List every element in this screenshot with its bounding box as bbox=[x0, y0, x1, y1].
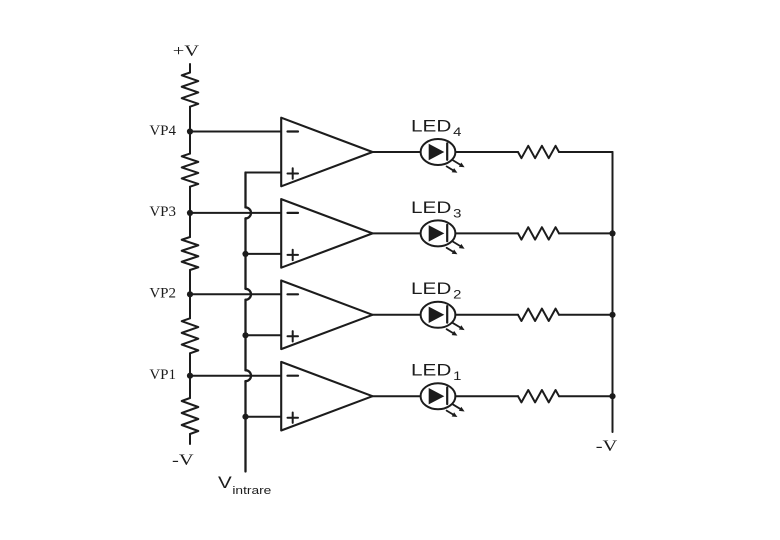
wire LED2 to resistor bbox=[455, 314, 518, 316]
junction input bus row 4 bbox=[242, 414, 248, 420]
LED D1 diode triangle bbox=[429, 388, 445, 404]
svg-text:+V: +V bbox=[173, 42, 200, 59]
wire U2 output to LED2 bbox=[373, 314, 421, 316]
LED D1 cathode bar bbox=[446, 388, 448, 405]
svg-text:VP1: VP1 bbox=[149, 367, 176, 383]
svg-text:-V: -V bbox=[596, 437, 618, 454]
U1 minus sign bbox=[288, 375, 299, 377]
wire hop over VP3 line bbox=[246, 207, 252, 218]
LED D4 circle bbox=[421, 139, 456, 165]
wire R5 to -V bbox=[189, 434, 191, 444]
resistor output row 2 bbox=[518, 309, 559, 321]
resistor R1 bbox=[182, 73, 199, 107]
node VP4 bbox=[187, 128, 193, 134]
wire U1 output to LED1 bbox=[373, 395, 421, 397]
U4 plus sign bbox=[288, 168, 299, 178]
wire LED1 to resistor bbox=[455, 395, 518, 397]
U2 minus sign bbox=[288, 293, 299, 295]
wire +V to R1 bbox=[189, 64, 191, 73]
wire R4 to node VP1 bbox=[189, 353, 191, 375]
junction input bus row 2 bbox=[242, 251, 248, 257]
wire hop over VP1 line bbox=[246, 370, 252, 381]
node VP3 bbox=[187, 210, 193, 216]
svg-text:VP3: VP3 bbox=[149, 204, 176, 220]
resistor R4 bbox=[182, 318, 199, 353]
wire R2 to node VP3 bbox=[189, 187, 191, 213]
U4 minus sign bbox=[288, 130, 299, 132]
LED D4 cathode bar bbox=[446, 143, 448, 160]
wire VP3 to comparator inverting input bbox=[190, 212, 281, 214]
U2 plus sign bbox=[288, 331, 299, 341]
wire LED4 to resistor bbox=[455, 151, 518, 153]
op-amp U3 bbox=[281, 199, 372, 268]
wire VP4 to R2 bbox=[189, 132, 191, 154]
wire resistor to right bus row 1 bbox=[559, 395, 613, 397]
LED D1 circle bbox=[421, 383, 456, 409]
wire bus to comparator U2 noninverting input bbox=[246, 334, 282, 336]
wire VP4 to comparator inverting input bbox=[190, 131, 281, 133]
LED D2 diode triangle bbox=[429, 307, 445, 323]
wire VP2 to comparator inverting input bbox=[190, 293, 281, 295]
wire R1 to node VP4 bbox=[189, 107, 191, 132]
resistor output row 3 bbox=[518, 227, 559, 239]
junction right bus row 2 bbox=[609, 312, 615, 318]
svg-text:LED1: LED1 bbox=[411, 361, 461, 383]
wire resistor to right bus row 3 bbox=[559, 232, 613, 234]
wire U3 output to LED3 bbox=[373, 232, 421, 234]
wire resistor to right bus row 4 bbox=[559, 151, 613, 153]
junction input bus row 3 bbox=[242, 332, 248, 338]
LED D2 cathode bar bbox=[446, 306, 448, 323]
wire hop over VP2 line bbox=[246, 289, 252, 300]
op-amp U2 bbox=[281, 281, 372, 350]
U3 plus sign bbox=[288, 250, 299, 260]
wire LED3 to resistor bbox=[455, 232, 518, 234]
svg-text:LED2: LED2 bbox=[411, 280, 461, 302]
junction right bus row 1 bbox=[609, 393, 615, 399]
svg-text:VP2: VP2 bbox=[149, 286, 176, 302]
LED D2 circle bbox=[421, 302, 456, 328]
LED D4 diode triangle bbox=[429, 144, 445, 160]
junction right bus row 3 bbox=[609, 230, 615, 236]
node VP1 bbox=[187, 373, 193, 379]
svg-text:LED4: LED4 bbox=[411, 117, 462, 139]
node VP2 bbox=[187, 291, 193, 297]
svg-text:VP4: VP4 bbox=[149, 123, 176, 139]
LED D3 emission arrows bbox=[447, 241, 465, 254]
wire input bus vertical bbox=[244, 173, 246, 472]
resistor output row 4 bbox=[518, 146, 559, 158]
op-amp U4 bbox=[281, 118, 372, 187]
resistor R5 bbox=[182, 398, 199, 434]
wire VP1 to comparator inverting input bbox=[190, 375, 281, 377]
op-amp U1 bbox=[281, 362, 372, 431]
LED D2 emission arrows bbox=[447, 323, 465, 336]
LED D4 emission arrows bbox=[447, 160, 465, 173]
svg-text:Vintrare: Vintrare bbox=[218, 473, 271, 497]
wire VP3 to R3 bbox=[189, 213, 191, 237]
svg-text:LED3: LED3 bbox=[411, 198, 461, 220]
LED D3 diode triangle bbox=[429, 225, 445, 241]
wire bus to comparator U3 noninverting input bbox=[246, 253, 282, 255]
LED D3 circle bbox=[421, 220, 456, 246]
resistor output row 1 bbox=[518, 390, 559, 402]
wire resistor to right bus row 2 bbox=[559, 314, 613, 316]
wire R3 to node VP2 bbox=[189, 270, 191, 294]
wire right bus vertical bbox=[612, 152, 614, 432]
wire bus to comparator U1 noninverting input bbox=[246, 416, 282, 418]
resistor R2 bbox=[182, 154, 199, 187]
resistor R3 bbox=[182, 237, 199, 270]
svg-text:-V: -V bbox=[172, 451, 194, 468]
wire VP1 to R5 bbox=[189, 376, 191, 398]
wire VP2 to R4 bbox=[189, 294, 191, 318]
LED D1 emission arrows bbox=[447, 404, 465, 417]
wire bus to comparator U4 noninverting input bbox=[246, 172, 282, 174]
U1 plus sign bbox=[288, 413, 299, 423]
LED D3 cathode bar bbox=[446, 225, 448, 242]
U3 minus sign bbox=[288, 212, 299, 214]
wire U4 output to LED4 bbox=[373, 151, 421, 153]
